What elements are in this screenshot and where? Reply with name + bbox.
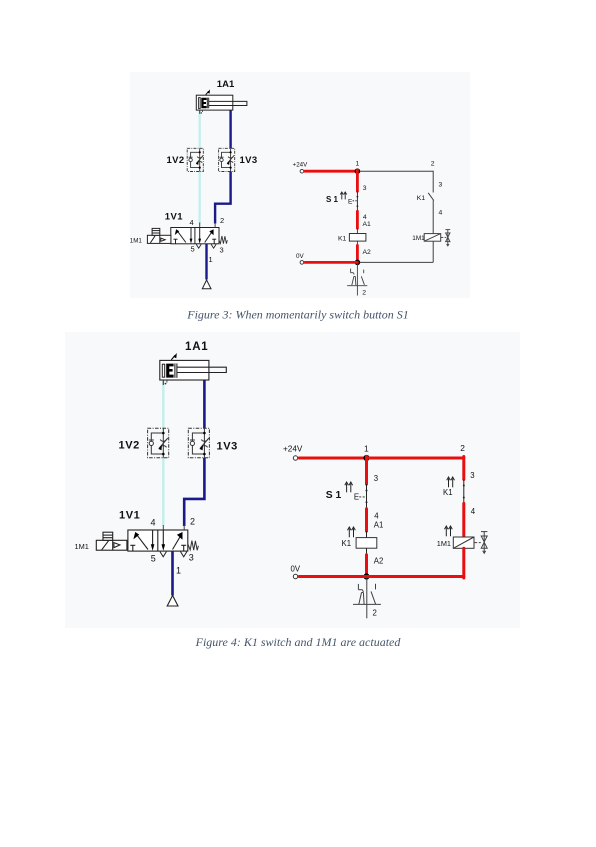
- svg-text:2: 2: [373, 609, 377, 618]
- svg-text:3: 3: [189, 553, 194, 563]
- svg-text:2: 2: [220, 216, 224, 225]
- right box: blocked port 3 T: [213, 239, 215, 244]
- junction: [363, 573, 369, 579]
- bottom rail thin: [357, 261, 433, 263]
- wire: cyan 1V2 to valve port 4: [162, 458, 164, 526]
- svg-text:4: 4: [151, 518, 156, 528]
- cushion plate: [162, 364, 164, 377]
- K1 contact closed: [463, 479, 465, 503]
- svg-text:K1: K1: [443, 488, 453, 497]
- wire: thin link into valve port 4: [199, 223, 201, 228]
- wire: cyan line 1V2 to valve port 4: [199, 172, 201, 225]
- cylinder port stubs: [199, 110, 201, 114]
- wire: blue line 1V3 to valve port 2 (stepped): [215, 172, 231, 224]
- motion arrow: [171, 355, 175, 359]
- actuation arrows 1M1: [445, 526, 453, 536]
- svg-text:1: 1: [356, 161, 360, 168]
- valve solenoid 1M1 box: [453, 537, 474, 548]
- svg-text:1M1: 1M1: [437, 539, 451, 548]
- cylinder piston plates: [206, 98, 208, 109]
- wire: cyan cylinder to 1V2: [162, 380, 164, 428]
- figure 4 canvas tint: [65, 332, 520, 628]
- svg-text:3: 3: [374, 474, 378, 483]
- red 1M1 to bottom rail: [462, 548, 465, 578]
- svg-text:3: 3: [439, 182, 443, 189]
- svg-text:1V1: 1V1: [119, 510, 140, 522]
- svg-text:S 1: S 1: [326, 490, 342, 501]
- svg-text:S 1: S 1: [326, 195, 339, 204]
- right box: passage 4->5 vertical: [199, 228, 201, 240]
- svg-text:+24V: +24V: [283, 444, 303, 453]
- left box: passage 1->4 diagonal: [178, 231, 186, 242]
- blue supply line port 1: [171, 551, 174, 595]
- svg-text:1A1: 1A1: [217, 79, 235, 90]
- right box blocked 3 T: [183, 545, 185, 551]
- wire: blue supply line port 1: [205, 244, 207, 280]
- exhaust triangle port 3: [211, 244, 216, 248]
- svg-text:2: 2: [431, 161, 435, 168]
- svg-text:A1: A1: [374, 521, 384, 530]
- actuation arrows K1 coil: [348, 527, 356, 537]
- svg-text:4: 4: [471, 507, 476, 516]
- cylinder port stubs: [162, 380, 164, 385]
- flow control valve 1V2: [148, 428, 169, 458]
- right box: passage 1->2 diagonal: [205, 231, 213, 242]
- left branch red down: [365, 457, 368, 485]
- exhaust triangles: [160, 552, 166, 557]
- red wire node1 down: [356, 170, 359, 191]
- bottom junction node: [355, 260, 361, 266]
- relay valve solenoid 1M1 box: [424, 234, 441, 242]
- node 2 wire: top rail thin: [357, 170, 433, 172]
- pilot ladder: [152, 228, 160, 235]
- node 1: [363, 455, 369, 461]
- wire: blue cylinder to 1V3: [203, 380, 206, 428]
- S1 contact closed: [366, 484, 368, 509]
- relay coil K1: [356, 538, 377, 549]
- wire: blue 1V3 to valve port 2 stepped: [184, 458, 204, 526]
- svg-text:E: E: [348, 199, 353, 206]
- svg-text:5: 5: [151, 554, 156, 564]
- red top rail left: [299, 457, 366, 460]
- cylinder 1A1 body: [196, 95, 233, 110]
- flow control valve 1V3: [219, 148, 235, 171]
- left box: blocked port 5 T: [175, 239, 177, 244]
- red wire coil to bottom junction: [356, 241, 358, 245]
- svg-text:K1: K1: [417, 195, 426, 202]
- svg-text:A1: A1: [363, 221, 372, 228]
- left box 2->3 vertical: [152, 530, 154, 546]
- air supply triangle: [167, 596, 178, 607]
- air supply triangle: [202, 280, 211, 289]
- red S1 to coil: [365, 509, 368, 531]
- svg-text:1M1: 1M1: [412, 235, 425, 242]
- svg-text:3: 3: [363, 185, 367, 192]
- red bottom rail right: [367, 575, 464, 578]
- spring return: [219, 236, 227, 244]
- svg-text:2: 2: [362, 290, 366, 297]
- svg-text:1: 1: [176, 566, 181, 576]
- valve 1V1 body: [171, 228, 219, 244]
- svg-text:4: 4: [374, 512, 379, 521]
- relay coil K1: [349, 234, 366, 242]
- wire: cyan line cylinder left port to 1V2: [199, 110, 201, 148]
- thin link + red to junction: [366, 548, 368, 555]
- +24V terminal: [300, 169, 304, 173]
- red bottom rail left to 0V: [299, 575, 366, 578]
- svg-text:4: 4: [190, 218, 194, 227]
- cylinder motion arrow: [206, 91, 209, 95]
- valve icon right of 1M1: [441, 230, 451, 246]
- right box 4->5 vertical: [162, 530, 164, 546]
- valve link symbol below junction: [347, 262, 367, 295]
- spring: [188, 541, 199, 551]
- svg-text:1: 1: [364, 443, 369, 453]
- svg-text:2: 2: [460, 443, 465, 453]
- svg-text:1M1: 1M1: [130, 237, 143, 244]
- right branch wire upper: [432, 171, 434, 193]
- svg-text:1A1: 1A1: [185, 341, 209, 353]
- 0V terminal: [300, 261, 304, 265]
- left box 1->4 diagonal: [137, 535, 148, 550]
- flow control valve 1V2: [187, 148, 203, 171]
- svg-text:1V2: 1V2: [167, 155, 185, 166]
- svg-text:2: 2: [190, 517, 195, 527]
- valve arrowheads: [133, 532, 139, 539]
- svg-text:K1: K1: [342, 539, 352, 548]
- svg-text:1: 1: [209, 255, 213, 264]
- cylinder piston magnet (black E): [201, 98, 206, 108]
- valve icon right of 1M1: [474, 532, 487, 554]
- right box 1->2 diagonal: [173, 535, 182, 550]
- switch S1 (closed, pressed): [356, 191, 358, 211]
- cylinder 1A1 body: [160, 360, 209, 380]
- svg-text:1V3: 1V3: [217, 441, 238, 453]
- actuation arrows above S1: [340, 192, 346, 199]
- valve link symbol below junction: [353, 577, 381, 619]
- wire below 1M1 to bottom rail: [432, 241, 434, 262]
- thin link to coil: [366, 531, 368, 538]
- cylinder rod: [209, 101, 247, 105]
- node 1 junction: [355, 168, 361, 174]
- left box: passage 2->3 vertical: [190, 228, 192, 240]
- left box blocked 5 T: [132, 545, 134, 551]
- valve arrowheads: [175, 229, 180, 235]
- svg-text:5: 5: [191, 245, 195, 254]
- svg-text:3: 3: [220, 246, 224, 255]
- red wire S1 to coil: [356, 211, 359, 228]
- svg-text:3: 3: [470, 471, 474, 480]
- svg-text:Figure 4: K1 switch and 1M1 ar: Figure 4: K1 switch and 1M1 are actuated: [195, 635, 402, 649]
- svg-text:0V: 0V: [291, 565, 301, 574]
- actuation arrows S1: [345, 482, 353, 492]
- wire: thin link into valve port 2: [214, 223, 216, 228]
- actuation arrows K1 contact: [447, 477, 455, 487]
- red wire junction to 0V: [305, 261, 357, 264]
- valve 1V1 body: [128, 530, 188, 551]
- wire: blue line cylinder right port to 1V3: [229, 110, 231, 148]
- svg-text:4: 4: [439, 210, 443, 217]
- svg-text:1V3: 1V3: [240, 155, 258, 166]
- flow control valve 1V3: [188, 428, 209, 458]
- cylinder cushion plate: [199, 98, 201, 109]
- svg-text:4: 4: [363, 214, 367, 221]
- right branch red down: [462, 457, 465, 480]
- svg-text:1V2: 1V2: [119, 440, 140, 452]
- exhaust triangle port 5: [196, 244, 201, 248]
- contact K1 (open): [428, 193, 434, 201]
- svg-text:A2: A2: [374, 557, 384, 566]
- +24V terminal: [293, 456, 297, 460]
- svg-text:1V1: 1V1: [165, 212, 183, 223]
- svg-text:0V: 0V: [296, 253, 305, 260]
- red top rail right: [367, 457, 464, 460]
- piston plates: [174, 363, 176, 377]
- solenoid 1M1 box: [147, 228, 171, 243]
- figure 3 canvas tint: [130, 72, 470, 298]
- piston magnet E: [166, 364, 173, 378]
- red wire +24V to node 1: [305, 170, 357, 173]
- svg-text:Figure 3: When momentarily swi: Figure 3: When momentarily switch button…: [186, 308, 409, 322]
- svg-text:A2: A2: [363, 249, 372, 256]
- svg-text:1M1: 1M1: [75, 542, 89, 551]
- svg-text:+24V: +24V: [293, 162, 308, 169]
- svg-text:E: E: [354, 493, 359, 502]
- svg-text:K1: K1: [338, 236, 347, 243]
- solenoid box: [96, 532, 127, 550]
- rod: [177, 367, 226, 372]
- red contact to 1M1: [462, 503, 465, 537]
